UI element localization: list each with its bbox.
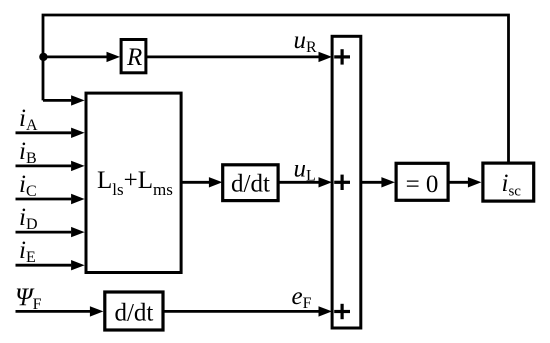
summer plus sign top bbox=[334, 49, 350, 64]
svg-text:d/dt: d/dt bbox=[231, 171, 270, 198]
svg-text:= 0: = 0 bbox=[406, 171, 439, 198]
derivative block d/dt (bottom) bbox=[105, 292, 163, 330]
wire input iB bbox=[16, 164, 72, 167]
wire d/dt bottom to summer bbox=[163, 310, 319, 313]
output block i_sc bbox=[483, 163, 534, 201]
wire top feedback (i_sc top to left vertical) bbox=[43, 15, 509, 163]
wire feedback into L block bbox=[43, 99, 71, 102]
derivative block d/dt (middle) bbox=[223, 165, 278, 201]
node junction dot bbox=[39, 53, 47, 61]
wire input iC bbox=[16, 198, 72, 201]
wire d/dt to summer bbox=[278, 181, 319, 184]
summer block bbox=[332, 36, 361, 328]
svg-text:d/dt: d/dt bbox=[114, 299, 153, 326]
wire summer to =0 block bbox=[361, 181, 382, 184]
comparator block =0 bbox=[396, 163, 448, 200]
wire L block to d/dt bbox=[181, 181, 209, 184]
wire input iA bbox=[16, 131, 72, 134]
summer plus sign middle bbox=[334, 175, 350, 190]
svg-text:R: R bbox=[126, 44, 142, 71]
summer plus sign bottom bbox=[334, 304, 350, 319]
wire junction to R block bbox=[43, 56, 107, 59]
wire input iE bbox=[16, 264, 72, 267]
wire Psi_F input bbox=[16, 310, 91, 313]
wire R to summer bbox=[146, 56, 319, 59]
resistor block R bbox=[121, 40, 146, 73]
wire =0 to i_sc block bbox=[448, 181, 468, 184]
wire input iD bbox=[16, 231, 72, 234]
inductance block Lls+Lms bbox=[86, 93, 181, 272]
